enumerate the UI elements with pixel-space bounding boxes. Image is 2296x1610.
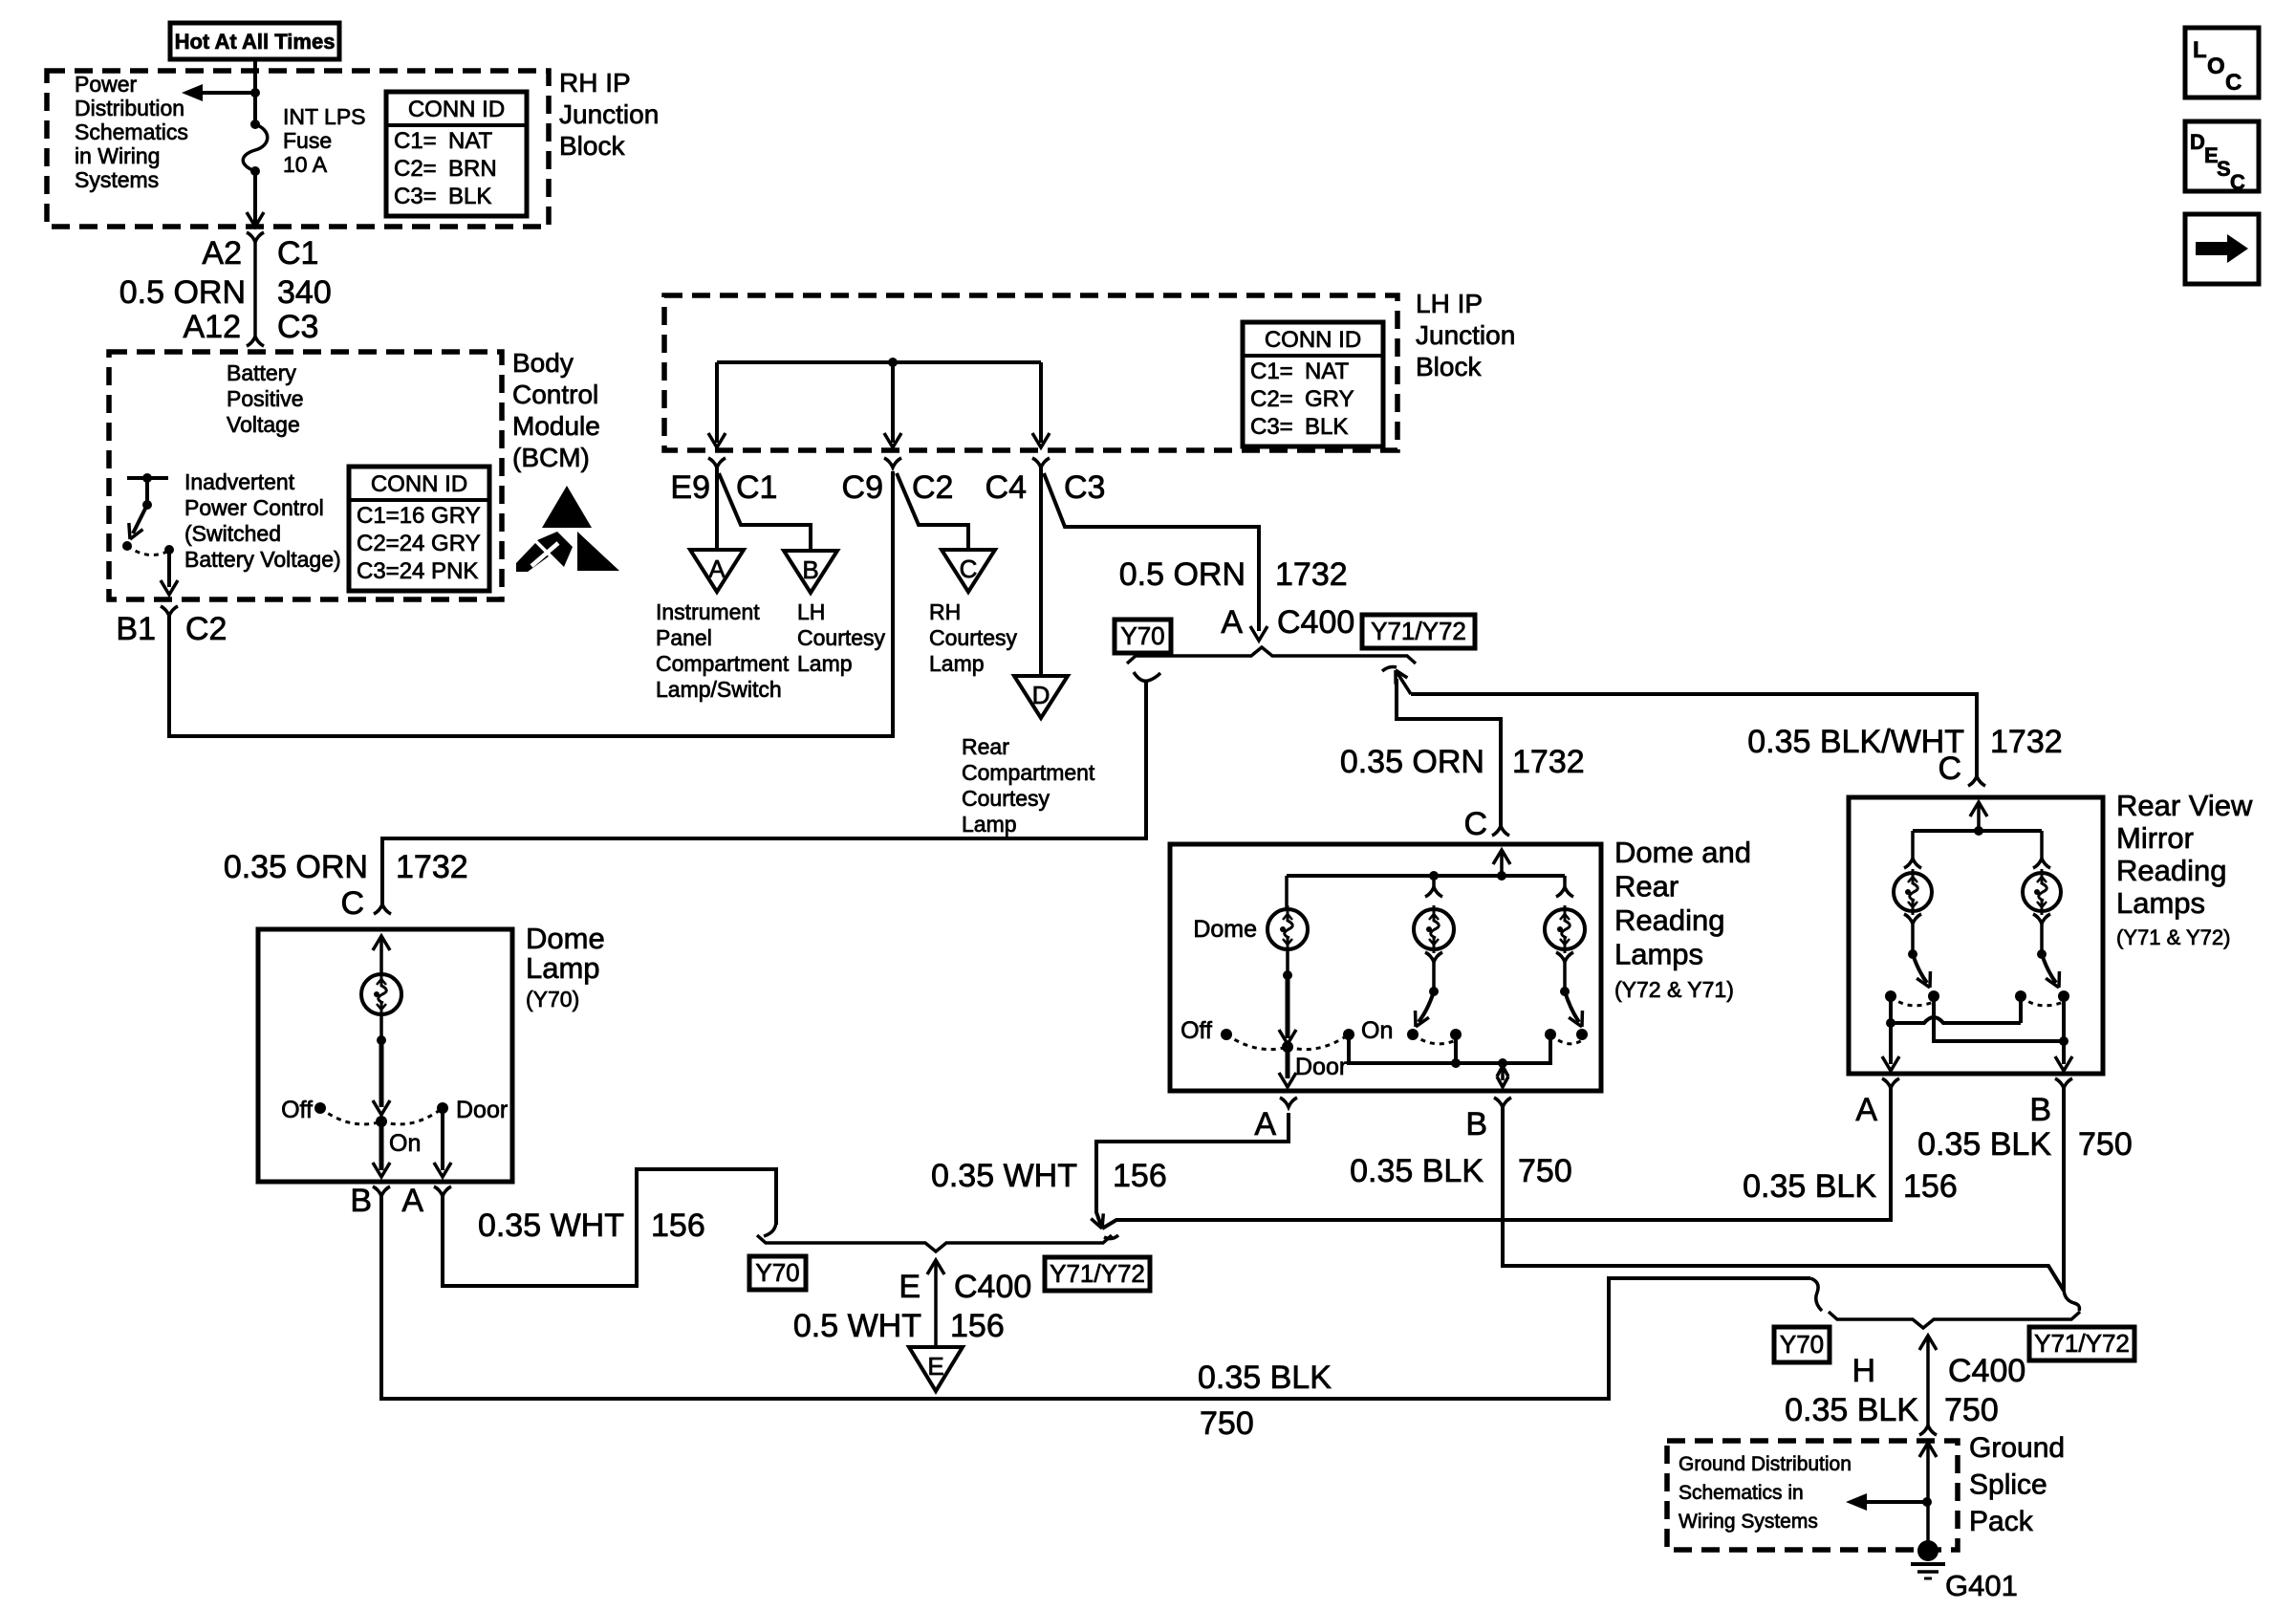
arrow up to brace center pin H [1919, 1336, 1937, 1350]
LH IP Junction Block dashed box [664, 295, 1397, 450]
svg-text:D: D [2190, 130, 2205, 154]
Off contact [314, 1102, 326, 1114]
wire On contact to pin B [379, 1121, 384, 1170]
svg-text:INT LPS: INT LPS [283, 104, 366, 129]
wire Door contact to pin A [441, 1108, 444, 1170]
svg-text:C3: C3 [277, 309, 318, 345]
internal supply bus [1913, 829, 2042, 833]
svg-text:0.35 ORN: 0.35 ORN [1340, 744, 1484, 780]
wire Y71/Y72 side 0.35 ORN 1732 to dome and rear reading lamps C [1397, 679, 1501, 826]
ground symbol G401 [1917, 1540, 1939, 1561]
svg-text:0.35 BLK/WHT: 0.35 BLK/WHT [1747, 724, 1964, 760]
svg-text:0.35 BLK: 0.35 BLK [1198, 1360, 1332, 1396]
breakout hook right of brace A with arrow [1382, 667, 1397, 672]
triangle E ground reference [909, 1347, 963, 1391]
svg-text:750: 750 [1518, 1153, 1572, 1189]
arrow up to brace center pin E [927, 1260, 944, 1274]
wire Y70 side 0.35 ORN 1732 to dome lamp C [382, 682, 1146, 904]
svg-text:10 A: 10 A [283, 152, 328, 177]
svg-text:Lamp: Lamp [526, 951, 600, 985]
wire rear view mirror A 0.35 BLK 156 [1102, 1088, 1891, 1229]
svg-text:CONN ID: CONN ID [408, 97, 505, 122]
svg-text:Block: Block [1416, 352, 1482, 381]
Y71/Y72 tag box [1045, 1257, 1150, 1291]
Door contact [437, 1102, 448, 1114]
svg-text:LH IP: LH IP [1416, 289, 1483, 318]
svg-text:156: 156 [950, 1308, 1005, 1344]
svg-text:Junction: Junction [1416, 320, 1515, 350]
svg-text:Off: Off [1180, 1017, 1212, 1044]
wire mirror B 0.35 BLK 750 [2062, 1088, 2066, 1291]
dome switch wiper dot [1282, 1041, 1293, 1053]
svg-text:Power Control: Power Control [184, 495, 324, 520]
switch return bus [1349, 1034, 1550, 1063]
pin A connector [1280, 1098, 1297, 1107]
connector C9/C2 [884, 458, 901, 468]
svg-text:C: C [2225, 70, 2242, 96]
mirror lamp 1 branch [1911, 831, 1915, 859]
wire branch C9/C2 to triangle C [897, 473, 968, 548]
mirror lamp 2 switch wiper [2042, 954, 2056, 983]
svg-text:Dome and: Dome and [1614, 836, 1751, 869]
svg-text:CONN ID: CONN ID [371, 471, 467, 497]
feed arrow at C [1970, 802, 1987, 816]
svg-text:0.5 ORN: 0.5 ORN [119, 274, 246, 311]
svg-text:NAT: NAT [1305, 359, 1350, 384]
svg-text:Y71/Y72: Y71/Y72 [1371, 617, 1466, 645]
pin B connector [2055, 1078, 2072, 1088]
CONN ID table (RH IP) [386, 92, 527, 216]
bus drop to C4/C3 [1039, 362, 1043, 443]
svg-text:C1=: C1= [394, 128, 437, 154]
wire dome and rear lamps A + mirror A 0.35 WHT 156 into splice [1096, 1113, 1289, 1229]
svg-text:B: B [2029, 1092, 2051, 1128]
svg-text:(Y71 & Y72): (Y71 & Y72) [2116, 925, 2230, 949]
mirror lamp 1 switch wiper [1913, 954, 1927, 983]
svg-text:1732: 1732 [1275, 556, 1348, 593]
svg-text:Rear: Rear [962, 734, 1009, 759]
svg-text:Ground: Ground [1969, 1432, 2065, 1464]
feed arrow at C [1493, 850, 1510, 864]
svg-text:Dome: Dome [526, 922, 605, 955]
svg-text:C1=: C1= [1250, 359, 1293, 384]
triangle D: Rear Compartment Courtesy Lamp [1014, 676, 1068, 718]
svg-text:E: E [899, 1269, 921, 1305]
svg-text:E: E [927, 1352, 943, 1381]
svg-text:Lamps: Lamps [2116, 886, 2205, 920]
Dome Lamp box [258, 929, 512, 1182]
switch dashed arc Off-On-Door [320, 1108, 381, 1124]
svg-text:Ground Distribution: Ground Distribution [1679, 1453, 1852, 1475]
svg-text:C2: C2 [185, 611, 227, 647]
svg-text:S: S [2217, 157, 2231, 181]
LOC icon box [2185, 28, 2259, 98]
svg-text:A12: A12 [184, 309, 242, 345]
connector A2/C1 to A12/C3 wire 0.5 ORN 340 [247, 232, 264, 242]
dome lamp pin A connector [434, 1186, 451, 1196]
wire dome lamp A 0.35 WHT 156 to C400 splice [443, 1169, 776, 1286]
wire Y71/Y72 side 0.35 BLK/WHT 1732 to rear view mirror C [1411, 694, 1977, 776]
svg-text:0.35 BLK: 0.35 BLK [1917, 1126, 2051, 1163]
svg-text:BRN: BRN [448, 156, 497, 182]
wire C4/C3 branch 0.5 ORN 1732 to C400 pin A [1044, 473, 1259, 631]
RH IP Junction Block dashed box [47, 71, 549, 227]
svg-text:Splice: Splice [1969, 1469, 2047, 1501]
svg-text:Wiring Systems: Wiring Systems [1679, 1511, 1818, 1533]
svg-text:156: 156 [1903, 1168, 1958, 1205]
svg-text:C3=: C3= [1250, 414, 1293, 440]
svg-text:0.5 ORN: 0.5 ORN [1119, 556, 1245, 593]
svg-text:Courtesy: Courtesy [797, 625, 886, 650]
CONN ID table (BCM) [349, 467, 489, 591]
svg-text:Mirror: Mirror [2116, 821, 2194, 855]
svg-text:Block: Block [559, 131, 625, 161]
harness splice brace at C400 pin E [757, 1235, 1112, 1251]
svg-text:C9: C9 [842, 469, 883, 506]
svg-text:C4: C4 [986, 469, 1027, 506]
svg-text:0.35 BLK: 0.35 BLK [1785, 1392, 1918, 1428]
dome lamp bulb [361, 974, 401, 1014]
wire right contact to pin B [2062, 996, 2066, 1064]
svg-text:GRY: GRY [1305, 386, 1354, 412]
svg-text:Dome: Dome [1193, 916, 1257, 943]
svg-text:in Wiring: in Wiring [75, 143, 160, 168]
svg-text:Schematics: Schematics [75, 120, 188, 144]
arrow to power distribution (left) [201, 91, 255, 95]
svg-text:Instrument: Instrument [656, 599, 760, 624]
svg-text:Panel: Panel [656, 625, 712, 650]
svg-text:C2: C2 [912, 469, 953, 506]
Y70 tag box [1774, 1327, 1830, 1362]
svg-text:(Y70): (Y70) [526, 987, 579, 1012]
svg-text:C3=24 PNK: C3=24 PNK [357, 558, 478, 584]
svg-text:Distribution: Distribution [75, 96, 184, 120]
svg-text:750: 750 [1944, 1392, 1999, 1428]
svg-text:Door: Door [1295, 1054, 1347, 1080]
svg-text:0.35 BLK: 0.35 BLK [1350, 1153, 1484, 1189]
svg-text:C2=: C2= [394, 156, 437, 182]
breakout hook left of brace A [1134, 672, 1160, 681]
CONN ID table (LH IP) [1243, 322, 1383, 446]
svg-text:C2=: C2= [1250, 386, 1293, 412]
svg-text:C2=24 GRY: C2=24 GRY [357, 531, 481, 556]
reading lamp 1 switch wiper [1419, 991, 1434, 1022]
triangle A: Instrument Panel Compartment Lamp/Switch [690, 550, 744, 592]
wire E9/C1 to triangle A [715, 468, 719, 548]
svg-text:Y70: Y70 [755, 1258, 799, 1287]
wire from fuse to C1 pin with arrow [253, 171, 257, 224]
svg-text:A: A [1221, 604, 1243, 641]
svg-text:C: C [2230, 170, 2245, 194]
svg-text:C: C [1463, 806, 1487, 842]
junction dot [250, 88, 260, 98]
contact to A with crossover hop [1889, 996, 1893, 1023]
wire BCM B1/C2 to LH IP C9/C2 [169, 471, 893, 736]
svg-text:Fuse: Fuse [283, 128, 332, 153]
svg-text:C3=: C3= [394, 184, 437, 209]
svg-text:(Switched: (Switched [184, 521, 281, 546]
svg-text:Pack: Pack [1969, 1506, 2034, 1537]
Body Control Module dashed box [109, 352, 502, 599]
pin B connector [1494, 1098, 1511, 1107]
svg-text:0.35 BLK: 0.35 BLK [1743, 1168, 1876, 1205]
svg-text:C1: C1 [736, 469, 777, 506]
svg-text:Courtesy: Courtesy [962, 786, 1051, 811]
svg-text:340: 340 [277, 274, 332, 311]
svg-text:Compartment: Compartment [656, 651, 790, 676]
lamp1 right contact down to B bus [1934, 996, 2064, 1041]
svg-text:0.5 WHT: 0.5 WHT [793, 1308, 921, 1344]
svg-text:B1: B1 [116, 611, 156, 647]
connector C4/C3 [1032, 458, 1050, 468]
svg-text:NAT: NAT [448, 128, 493, 154]
wire C4/C3 down to triangle D [1039, 468, 1043, 674]
wire return bus to pin B [1497, 1066, 1508, 1077]
svg-text:Compartment: Compartment [962, 760, 1095, 785]
svg-text:Reading: Reading [1614, 903, 1724, 937]
svg-text:Lamp: Lamp [929, 651, 985, 676]
svg-text:1732: 1732 [396, 849, 468, 885]
svg-text:BLK: BLK [448, 184, 491, 209]
arrow to ground distribution (left) [1865, 1500, 1927, 1504]
ground wire into splice pack [1919, 1443, 1937, 1457]
svg-text:Module: Module [512, 411, 600, 441]
svg-text:1732: 1732 [1512, 744, 1585, 780]
svg-text:A: A [1254, 1106, 1276, 1142]
svg-text:C1: C1 [277, 235, 318, 272]
svg-text:Y70: Y70 [1780, 1330, 1824, 1359]
Y70 tag box [749, 1256, 806, 1290]
svg-text:Hot At All Times: Hot At All Times [175, 30, 336, 54]
connector E9/C1 [708, 458, 726, 468]
svg-text:0.35 WHT: 0.35 WHT [478, 1207, 624, 1244]
triangle C: RH Courtesy Lamp [942, 550, 995, 592]
svg-text:CONN ID: CONN ID [1265, 327, 1361, 353]
fuse INT LPS 10 A [250, 120, 260, 129]
wire bulb to switch [379, 1015, 383, 1040]
mirror lamp 2 branch [2040, 831, 2044, 859]
svg-text:A: A [708, 555, 726, 583]
wire wiper to pin A [1286, 1047, 1290, 1078]
wire branch to triangle B [719, 473, 811, 549]
internal bus in LH IP block [717, 360, 1041, 364]
svg-text:RH: RH [929, 599, 961, 624]
Rear View Mirror Reading Lamps box [1849, 797, 2103, 1074]
svg-text:On: On [1361, 1017, 1393, 1044]
triangle B: LH Courtesy Lamp [784, 551, 837, 593]
connector B1/C2 [161, 606, 178, 616]
svg-text:Battery: Battery [227, 360, 296, 385]
svg-text:Inadvertent: Inadvertent [184, 469, 295, 494]
svg-text:B: B [802, 555, 818, 584]
pin A connector [1882, 1078, 1899, 1088]
svg-text:750: 750 [1200, 1405, 1254, 1442]
label box: Hot At All Times [170, 23, 339, 59]
wire from Hot At All Times into junction block [253, 59, 257, 124]
svg-text:A2: A2 [202, 235, 242, 272]
svg-text:Positive: Positive [227, 386, 304, 411]
Y70 tag box [1115, 620, 1171, 653]
wire dome lamp B 0.35 BLK 750 ground run [381, 1196, 1810, 1399]
wire dome and rear B 0.35 BLK 750 to splice H [1503, 1107, 2064, 1291]
svg-text:Rear: Rear [1614, 870, 1679, 903]
harness splice brace at C400 pin H [1829, 1312, 2080, 1328]
reading lamp 1 branch [1432, 876, 1436, 887]
svg-text:D: D [1032, 681, 1051, 709]
svg-text:Off: Off [281, 1097, 313, 1123]
svg-text:L: L [2193, 37, 2207, 63]
svg-text:(BCM): (BCM) [512, 443, 590, 472]
inadvertent power control switch [127, 476, 168, 480]
svg-text:Y70: Y70 [1120, 621, 1164, 650]
dome lamp feed arrow [373, 936, 390, 950]
switch wiper dot (On position) [376, 1116, 387, 1127]
svg-text:Y71/Y72: Y71/Y72 [2034, 1329, 2130, 1358]
svg-text:156: 156 [651, 1207, 705, 1244]
Dome and Rear Reading Lamps box [1170, 844, 1601, 1091]
svg-text:Body: Body [512, 348, 574, 378]
bus drop to E9/C1 [715, 362, 719, 443]
svg-text:Control: Control [512, 380, 598, 409]
svg-text:Voltage: Voltage [227, 412, 300, 437]
Y71/Y72 tag box [2029, 1327, 2134, 1360]
svg-text:156: 156 [1113, 1158, 1167, 1194]
svg-text:H: H [1852, 1353, 1875, 1389]
dome lamp pin B connector [373, 1186, 390, 1196]
svg-text:A: A [1855, 1092, 1877, 1128]
svg-text:On: On [389, 1130, 421, 1157]
svg-text:Schematics in: Schematics in [1679, 1482, 1804, 1504]
svg-text:B: B [1465, 1106, 1487, 1142]
svg-text:0.35 WHT: 0.35 WHT [931, 1158, 1077, 1194]
svg-text:Junction: Junction [559, 99, 659, 129]
DESC icon box [2185, 121, 2259, 191]
svg-text:C400: C400 [1948, 1353, 2025, 1389]
bus drop to C9/C2 [891, 362, 895, 443]
svg-text:Lamp: Lamp [797, 651, 853, 676]
svg-text:1732: 1732 [1990, 724, 2063, 760]
svg-text:Systems: Systems [75, 167, 159, 192]
svg-text:B: B [350, 1183, 372, 1219]
svg-text:C: C [1938, 751, 1961, 787]
svg-text:C3: C3 [1064, 469, 1105, 506]
wire to pin A [1889, 1023, 1893, 1064]
dashed arc [1226, 1034, 1288, 1050]
svg-text:Y71/Y72: Y71/Y72 [1050, 1259, 1145, 1288]
svg-text:Courtesy: Courtesy [929, 625, 1018, 650]
reading lamp 2 branch [1563, 876, 1567, 887]
svg-text:C400: C400 [1277, 604, 1354, 641]
svg-text:C: C [340, 885, 364, 922]
svg-text:Lamp: Lamp [962, 812, 1017, 837]
svg-text:O: O [2207, 54, 2225, 79]
dome bulb branch [1285, 876, 1289, 909]
ESD sensitivity icon [542, 486, 592, 528]
svg-text:BLK: BLK [1305, 414, 1348, 440]
svg-text:C1=16 GRY: C1=16 GRY [357, 503, 481, 529]
svg-text:A: A [401, 1183, 423, 1219]
svg-text:Lamps: Lamps [1614, 938, 1703, 971]
svg-text:Reading: Reading [2116, 854, 2226, 887]
internal supply bus [1287, 874, 1565, 878]
svg-text:750: 750 [2078, 1126, 2133, 1163]
svg-text:0.35 ORN: 0.35 ORN [224, 849, 368, 885]
Off contact [1221, 1029, 1232, 1040]
svg-text:Power: Power [75, 72, 138, 97]
Ground Splice Pack dashed box [1667, 1441, 1958, 1550]
svg-text:Door: Door [456, 1097, 508, 1123]
svg-text:LH: LH [797, 599, 825, 624]
svg-text:E9: E9 [670, 469, 710, 506]
svg-text:Rear View: Rear View [2116, 789, 2253, 822]
svg-text:RH IP: RH IP [559, 68, 631, 98]
On contact [1343, 1029, 1354, 1040]
svg-text:Lamp/Switch: Lamp/Switch [656, 677, 782, 702]
harness splice brace at C400 pin A [1127, 647, 1416, 664]
svg-text:(Y72 & Y71): (Y72 & Y71) [1614, 977, 1734, 1002]
forward arrow icon box [2185, 214, 2259, 284]
reading lamp 2 switch wiper [1565, 991, 1579, 1022]
Y71/Y72 tag box [1362, 615, 1475, 648]
svg-text:C400: C400 [954, 1269, 1031, 1305]
svg-text:C: C [960, 555, 978, 583]
svg-text:G401: G401 [1945, 1569, 2018, 1602]
svg-text:Battery Voltage): Battery Voltage) [184, 547, 341, 572]
